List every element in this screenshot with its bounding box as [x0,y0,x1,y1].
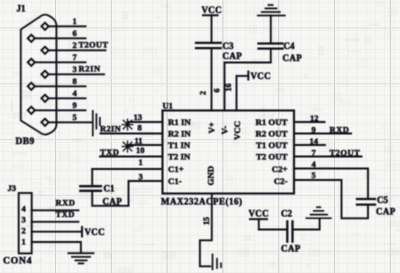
svg-text:MAX232ACPE(16): MAX232ACPE(16) [161,197,243,207]
U1 GND pin 15 wire [200,194,212,267]
svg-text:T2 OUT: T2 OUT [256,152,288,162]
svg-text:C1: C1 [104,184,115,194]
J3 pin3 wire (net TXD) [32,221,79,223]
svg-text:15: 15 [202,217,211,225]
svg-text:TXD: TXD [100,147,119,157]
J1 pin 4 diamond [41,95,48,102]
svg-text:C1+: C1+ [168,164,184,174]
svg-text:VCC: VCC [85,227,105,237]
J1 pin 9 diamond [28,107,35,114]
svg-text:R2IN: R2IN [79,64,101,74]
svg-text:VCC: VCC [249,209,269,219]
J1 pin 5 diamond [41,119,48,126]
VCC power symbol top [202,5,222,43]
wire pin7 [35,61,86,63]
U1 right pin 7 wire (net T2OUT) [294,156,362,158]
wire VCC to U1 pin16 [237,76,249,110]
svg-text:14: 14 [310,136,319,146]
U1 left pin 10 wire (net TXD) [100,156,162,158]
svg-text:T1 OUT: T1 OUT [256,140,288,150]
svg-text:C5: C5 [377,195,388,205]
connector J3 CON4 body [19,193,32,253]
J1 pin 2 diamond [41,47,48,54]
svg-text:R2 IN: R2 IN [168,129,191,139]
svg-text:11: 11 [135,135,143,145]
svg-text:VCC: VCC [232,121,242,140]
svg-text:1: 1 [139,157,143,167]
wire C4 to U1 pin6 [225,49,271,110]
U1 left pin 13 wire [128,121,163,123]
svg-text:GND: GND [206,166,216,186]
svg-text:CAP: CAP [281,243,301,253]
svg-text:VCC: VCC [251,71,271,81]
svg-text:C2+: C2+ [272,164,288,174]
connector J1 DB9 body [21,15,57,135]
svg-text:12: 12 [310,113,319,123]
svg-text:V+: V+ [207,122,217,133]
wire pin5 [49,121,91,123]
capacitor C2 plates (vertical) [287,221,292,241]
capacitor C1 lead [91,169,93,186]
svg-text:R1 OUT: R1 OUT [255,117,287,127]
J3 pin2 wire to VCC [32,231,82,233]
svg-text:T1 IN: T1 IN [168,140,191,150]
svg-text:3: 3 [139,171,143,181]
svg-text:J1: J1 [17,4,27,14]
svg-text:3: 3 [22,214,26,224]
svg-text:9: 9 [312,124,316,134]
capacitor C5 plates [357,199,375,205]
U1 left pin 8 wire (net R2IN) [101,133,163,135]
wire pin4 [49,97,86,99]
J1 pin 6 diamond [28,35,35,42]
J1 pin 3 diamond [41,71,48,78]
no-ERC cross pin13 [122,119,133,130]
wire pin8 [35,85,86,87]
svg-text:2: 2 [73,40,77,50]
svg-text:3: 3 [73,64,77,74]
wire pin3 [49,73,104,75]
svg-text:V-: V- [220,126,230,135]
svg-text:DB9: DB9 [16,137,35,147]
svg-text:8: 8 [138,123,142,133]
earth ground right of C2 [306,207,331,218]
J3 pin4 wire (net RXD) [32,209,79,211]
svg-text:C2: C2 [281,209,292,219]
svg-text:C3: C3 [223,41,234,51]
ground at U1 pin15 (rotated) [213,254,222,269]
U1 right pin 14 wire [294,144,325,146]
svg-text:CAP: CAP [376,206,396,216]
svg-text:CAP: CAP [103,197,123,207]
svg-text:T2OUT: T2OUT [79,40,109,50]
wire pin6 [35,37,86,39]
svg-text:10: 10 [136,145,145,155]
ground at J1 pin5 (rotated) [93,111,100,136]
wire pin2 [49,49,106,51]
wire pin9 [35,109,86,111]
svg-text:VCC: VCC [202,5,222,15]
U1 left internal pin labels [168,117,191,186]
svg-text:13: 13 [134,112,143,122]
svg-text:RXD: RXD [56,197,76,207]
svg-text:R2 OUT: R2 OUT [255,129,287,139]
J1 pin 8 diamond [28,83,35,90]
U1 right pin 9 wire (net RXD) [294,133,351,135]
U1 left pin 1 wire [92,168,162,170]
svg-text:6: 6 [213,89,222,93]
svg-text:TXD: TXD [56,209,75,219]
J3 pin1 wire to ground [32,242,81,253]
wire pin1 [49,25,86,27]
svg-text:CAP: CAP [223,51,243,61]
capacitor C1 plates [80,186,101,191]
svg-text:CON4: CON4 [3,256,32,267]
J3 pin numbers [22,204,27,247]
svg-text:T2OUT: T2OUT [330,147,361,157]
svg-text:C4: C4 [284,41,295,51]
svg-text:J3: J3 [8,183,17,193]
wire C3 to U1 pin2 [211,48,213,110]
svg-text:T2 IN: T2 IN [168,152,191,162]
svg-text:RXD: RXD [330,124,350,134]
svg-text:5: 5 [73,112,77,122]
svg-text:R2IN: R2IN [100,123,122,133]
VCC power symbol mid [248,71,271,81]
wire VCC to C2 [259,229,287,231]
svg-text:CAP: CAP [283,53,303,63]
VCC power symbol bottom [249,209,269,230]
svg-text:C1-: C1- [168,176,182,186]
op-amp U1 body box [163,111,295,194]
no-ERC cross pin11 [122,141,133,152]
svg-text:6: 6 [73,28,77,38]
svg-text:1: 1 [73,16,77,26]
U1 right pin 4 wire to C5 [294,169,368,200]
U1 right pin 12 wire [294,121,325,123]
svg-text:2: 2 [22,226,26,236]
J1 pin 7 diamond [28,59,35,66]
capacitor C4 lead top [270,16,272,44]
capacitor C3 plates [196,43,221,48]
svg-text:16: 16 [224,84,233,92]
wire C2 to earth [293,218,320,229]
svg-text:8: 8 [73,76,77,86]
svg-text:U1: U1 [163,100,173,110]
ground at J3 pin1 [68,253,93,263]
svg-text:C2-: C2- [274,176,288,186]
earth ground above C4 [258,5,285,16]
U1 left pin 11 wire [128,144,163,146]
svg-text:R1 IN: R1 IN [168,117,191,127]
capacitor C4 plates [259,44,283,49]
svg-text:1: 1 [22,237,26,247]
U1 left pin 3 wire [92,181,162,206]
svg-text:9: 9 [73,100,77,110]
VCC power symbol at J3 [82,227,105,237]
svg-text:2: 2 [199,91,208,95]
U1 right pin 5 wire to C5 bottom [294,180,368,218]
J1 pin 1 diamond [41,23,48,30]
U1 right internal pin labels [255,117,287,186]
svg-text:5: 5 [312,170,316,180]
